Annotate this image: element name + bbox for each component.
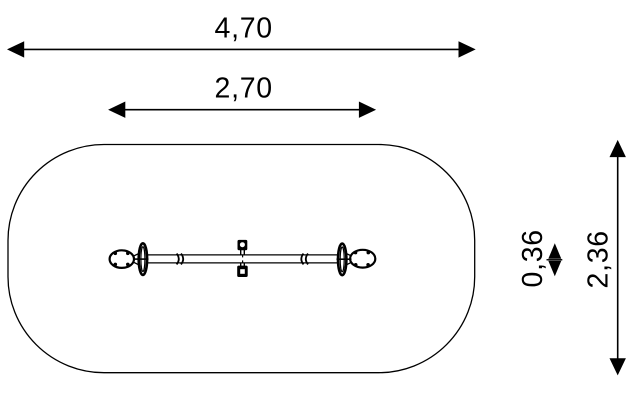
central pivot stem top bbox=[241, 250, 245, 256]
svg-text:2,70: 2,70 bbox=[215, 73, 273, 105]
dimension line 4,70 bbox=[7, 41, 476, 57]
seesaw beam (two horizontal tube lines) bbox=[146, 255, 339, 263]
right handlebar ring outer bbox=[338, 244, 346, 276]
svg-text:0,36: 0,36 bbox=[517, 229, 549, 287]
dimension line 2,36 (vertical right) bbox=[610, 140, 626, 376]
svg-text:4,70: 4,70 bbox=[215, 13, 273, 45]
central pivot mount top square bbox=[238, 240, 248, 250]
left seat bolts bbox=[114, 252, 130, 267]
central pivot mount bottom square bbox=[237, 266, 248, 277]
right handlebar ring inner bbox=[340, 247, 344, 272]
left handlebar ring inner bbox=[141, 247, 145, 272]
beam clamp marks left ")(" bbox=[177, 254, 184, 265]
left seat ellipse bbox=[110, 250, 134, 268]
dimension line 2,70 bbox=[108, 102, 376, 118]
left handlebar ring outer bbox=[139, 243, 147, 275]
right ring axle line bbox=[337, 258, 352, 260]
left ring axle line bbox=[134, 258, 149, 260]
dimension 0,36 small double arrow bbox=[547, 243, 563, 276]
pivot pin ticks bbox=[242, 255, 244, 263]
safety area outline (stadium rounded rectangle) bbox=[8, 145, 475, 373]
right handle wedge bbox=[342, 252, 351, 267]
right seat bolts bbox=[354, 251, 370, 267]
central pivot stem bottom bbox=[241, 263, 245, 269]
left handle wedge bbox=[134, 252, 143, 267]
beam clamp marks right "((" bbox=[301, 254, 308, 265]
svg-text:2,36: 2,36 bbox=[583, 230, 615, 288]
right seat ellipse bbox=[350, 250, 375, 268]
